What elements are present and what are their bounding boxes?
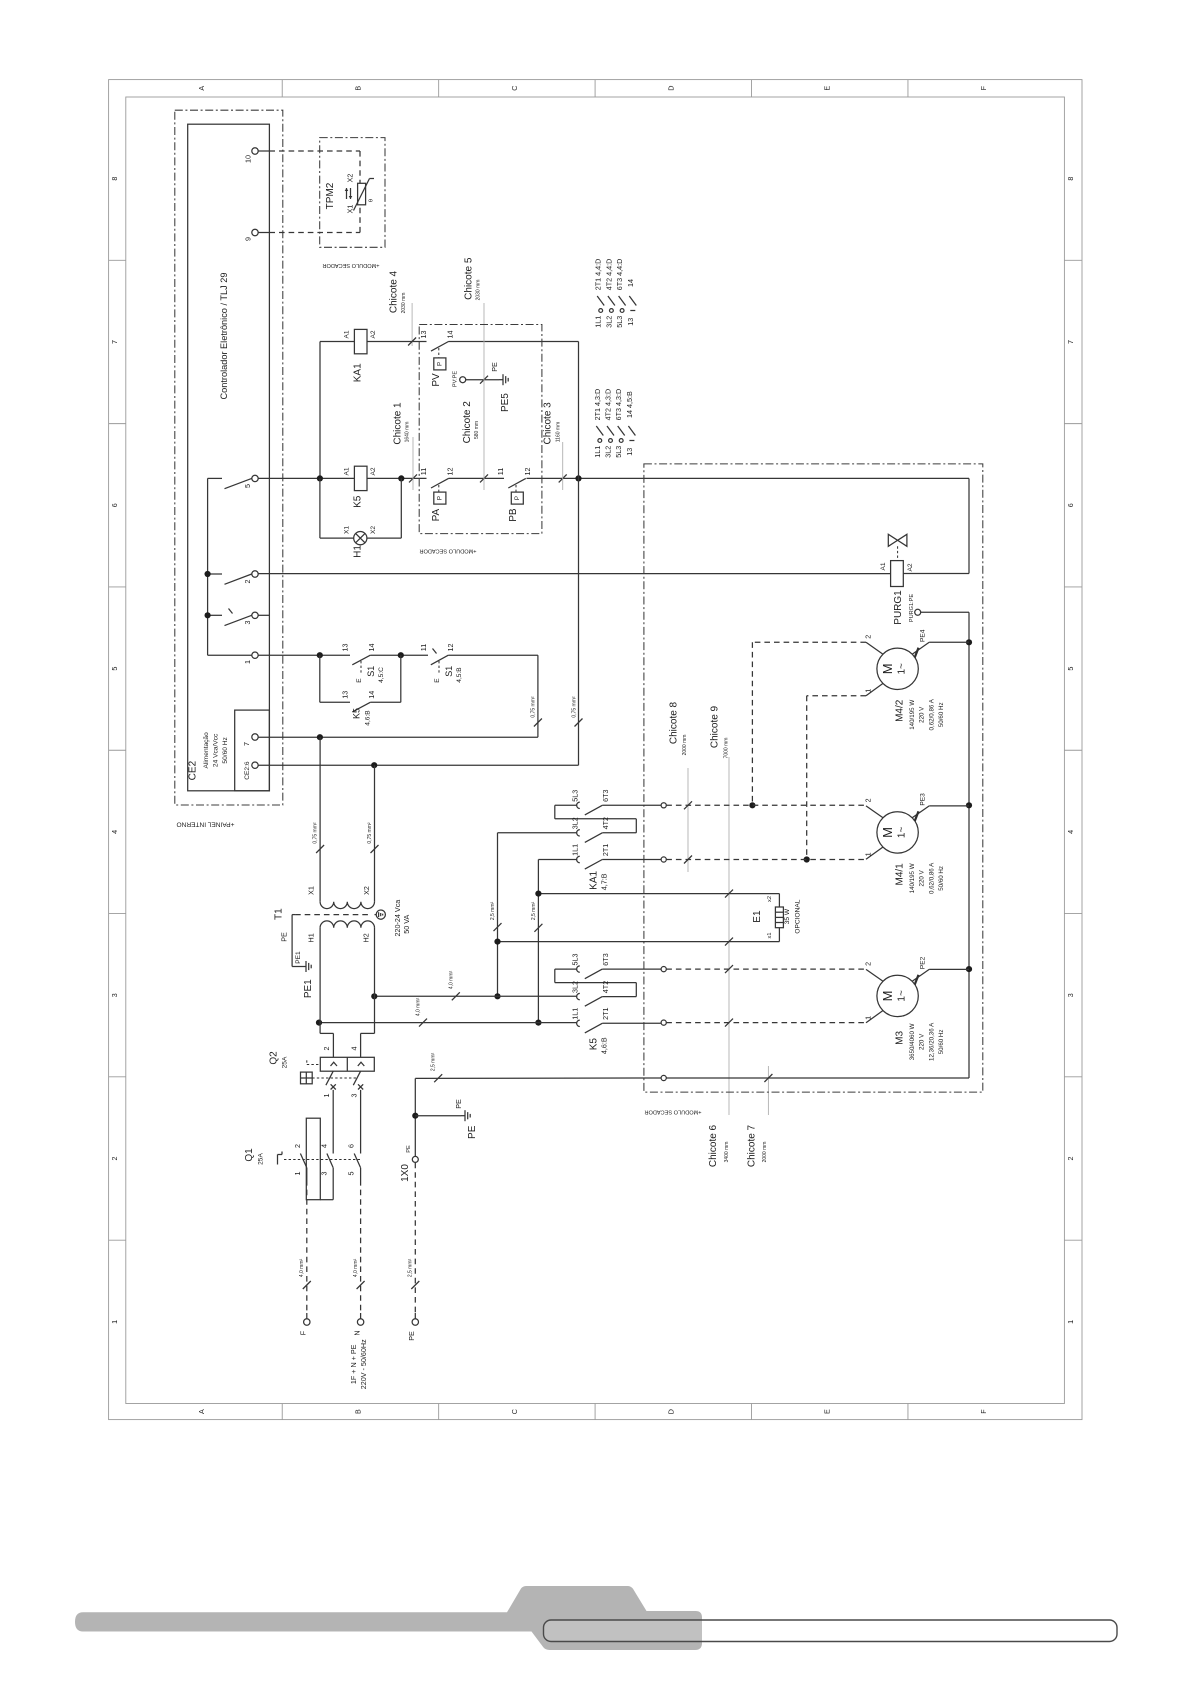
svg-text:K5: K5 [589, 1038, 600, 1051]
svg-text:12: 12 [523, 468, 532, 476]
svg-text:4: 4 [1066, 830, 1075, 834]
wire T1 X2 to CE2:6 rail 0,75mm2 [374, 765, 376, 902]
svg-text:K5: K5 [352, 708, 362, 719]
module boundary terminals [661, 803, 666, 808]
svg-text:4,5:C: 4,5:C [378, 667, 385, 683]
wire PURG1:PE to PE bus [921, 611, 969, 613]
svg-text:0,62/0,86 A: 0,62/0,86 A [928, 698, 935, 730]
svg-text:10: 10 [244, 155, 253, 163]
svg-text:E: E [356, 678, 363, 683]
controller terminal 9 [252, 229, 258, 235]
PA pressure switch P box [434, 492, 446, 504]
svg-text:3: 3 [243, 621, 252, 625]
svg-text:5L3: 5L3 [615, 316, 624, 328]
svg-text:2,5 mm²: 2,5 mm² [490, 902, 496, 921]
svg-text:1: 1 [243, 660, 252, 664]
svg-text:PA: PA [431, 508, 442, 521]
PV pressure switch P box [434, 358, 446, 370]
svg-text:A1: A1 [344, 467, 351, 475]
svg-text:9: 9 [244, 237, 253, 241]
svg-text:D: D [666, 1409, 675, 1414]
svg-text:H1: H1 [352, 545, 363, 558]
svg-text:3: 3 [110, 993, 119, 997]
svg-text:Chicote 4: Chicote 4 [389, 270, 400, 313]
svg-text:2T1: 2T1 [601, 1008, 610, 1020]
svg-text:2T1: 2T1 [601, 844, 610, 856]
svg-text:11: 11 [496, 468, 505, 475]
Chicote 9 / Chicote 6 harness marker [728, 757, 730, 1115]
svg-text:1L1: 1L1 [594, 316, 603, 328]
svg-text:12,36/20,36 A: 12,36/20,36 A [928, 1022, 935, 1061]
svg-text:220 V: 220 V [919, 869, 926, 886]
K5 power contact block 4,6:B [555, 968, 577, 970]
svg-text:0,75 mm²: 0,75 mm² [313, 822, 319, 843]
frame column/row dividers and ruler labels [281, 80, 283, 97]
svg-text:2000 mm: 2000 mm [762, 1142, 768, 1163]
svg-text:1L1: 1L1 [571, 1008, 580, 1020]
svg-text:CE2:6: CE2:6 [244, 761, 251, 780]
svg-text:13: 13 [626, 318, 635, 326]
vertical feed wire 2,5mm2 to KA1 3L2 / E1 [497, 833, 499, 997]
svg-text:4,7:B: 4,7:B [600, 873, 609, 890]
svg-text:A2: A2 [370, 467, 377, 475]
svg-text:K5: K5 [352, 495, 363, 508]
wire F phase dashed to mains [306, 1168, 308, 1180]
wire 1X0 up to PE distribution [414, 1078, 416, 1156]
motor M4/2 [877, 648, 918, 689]
svg-text:2030 mm: 2030 mm [476, 280, 482, 301]
T1 core line [295, 914, 372, 916]
svg-text:P: P [437, 496, 444, 500]
svg-text:4T2: 4T2 [601, 981, 610, 993]
svg-text:14: 14 [367, 644, 376, 652]
svg-text:Alimentação: Alimentação [203, 732, 210, 769]
svg-text:KA1: KA1 [589, 871, 600, 890]
svg-text:8: 8 [110, 177, 119, 181]
svg-text:PE1: PE1 [303, 979, 314, 998]
svg-text:2: 2 [110, 1157, 119, 1161]
svg-text:3L2: 3L2 [604, 446, 613, 458]
K5 relay coil [354, 466, 367, 490]
svg-text:6T3: 6T3 [601, 953, 610, 965]
svg-text:KA1: KA1 [352, 363, 363, 382]
svg-text:F: F [299, 1330, 308, 1335]
svg-text:4,6:B: 4,6:B [365, 710, 372, 726]
svg-text:PE: PE [280, 932, 289, 942]
svg-text:4,0 mm²: 4,0 mm² [449, 971, 455, 990]
svg-text:3: 3 [1066, 993, 1075, 997]
svg-text:5L3: 5L3 [571, 954, 580, 966]
svg-text:7: 7 [1066, 340, 1075, 344]
controller terminal 3 with output contact [208, 614, 222, 616]
svg-text:4,0 mm²: 4,0 mm² [416, 998, 422, 1017]
Chicote 8 harness marker [687, 768, 689, 872]
wire PV:PE to PE5 ground [466, 379, 499, 381]
svg-text:3650/4060 W: 3650/4060 W [909, 1023, 916, 1060]
svg-text:4T2 4,3:D: 4T2 4,3:D [604, 389, 613, 421]
svg-text:2T1 4,3:D: 2T1 4,3:D [593, 389, 602, 421]
svg-text:2: 2 [1066, 1157, 1075, 1161]
svg-text:M: M [880, 990, 895, 1001]
CE2 power supply sub-box [235, 710, 270, 791]
svg-text:B: B [353, 86, 362, 91]
svg-text:2: 2 [864, 962, 873, 966]
svg-text:0,62/0,86 A: 0,62/0,86 A [928, 862, 935, 894]
svg-text:1: 1 [110, 1320, 119, 1324]
wire PE dashed to mains [414, 1163, 416, 1313]
svg-text:A: A [197, 86, 206, 91]
svg-text:14: 14 [446, 331, 455, 339]
svg-text:1~: 1~ [897, 990, 908, 1002]
svg-text:35 W: 35 W [784, 908, 791, 924]
drawing frame inner border [126, 97, 1065, 1404]
dashed wire M4/2 terminal 1 branch [807, 695, 866, 697]
svg-text:X1: X1 [307, 886, 316, 895]
svg-text:12: 12 [446, 468, 455, 476]
svg-text:1: 1 [864, 852, 873, 856]
svg-text:PE: PE [406, 1145, 412, 1153]
svg-text:25A: 25A [282, 1056, 289, 1068]
Q1 pole 1-2 [300, 1154, 306, 1168]
PURG1 solenoid valve coil [891, 561, 904, 587]
H1 indicator lamp [354, 532, 367, 545]
svg-text:1640 mm: 1640 mm [405, 422, 411, 443]
svg-text:A1: A1 [344, 330, 351, 338]
svg-text:4T2: 4T2 [601, 817, 610, 829]
svg-text:Chicote 8: Chicote 8 [669, 701, 680, 744]
svg-text:2030 mm: 2030 mm [401, 293, 407, 314]
svg-text:PE: PE [490, 362, 499, 372]
dashed wire K5 6T3 to M3 2 [666, 968, 866, 970]
wires Q2 to Q1 [332, 1090, 334, 1154]
svg-text:M: M [880, 827, 895, 838]
svg-text:7000 mm: 7000 mm [724, 738, 730, 759]
svg-text:2: 2 [864, 635, 873, 639]
svg-text:3L2: 3L2 [571, 817, 580, 829]
svg-text:7: 7 [110, 340, 119, 344]
svg-text:1~: 1~ [897, 663, 908, 675]
svg-text:T1: T1 [274, 908, 285, 920]
wire terminal 7 rail [258, 736, 320, 738]
svg-text:50 VA: 50 VA [402, 914, 411, 933]
svg-text:A2: A2 [907, 563, 914, 571]
svg-text:C: C [510, 86, 519, 91]
svg-text:1: 1 [1066, 1320, 1075, 1324]
controller terminal 1 [252, 652, 258, 658]
svg-text:1: 1 [864, 1016, 873, 1020]
KA1 power contact block 4,7:B [555, 804, 577, 806]
wire PE to module 2,5mm2 [415, 1077, 661, 1079]
svg-text:2,5 mm²: 2,5 mm² [531, 902, 537, 921]
svg-text:220 V: 220 V [919, 1033, 926, 1050]
svg-text:X2: X2 [362, 886, 371, 895]
svg-text:50/60 Hz: 50/60 Hz [938, 866, 945, 891]
svg-text:13: 13 [340, 691, 349, 699]
svg-text:C: C [510, 1409, 519, 1414]
Q2 pole contacts [326, 1071, 333, 1085]
wire N dashed to mains [360, 1168, 362, 1180]
svg-text:13: 13 [340, 644, 349, 652]
svg-text:A: A [197, 1409, 206, 1414]
wire feed KA1 3L2 [498, 832, 578, 834]
Chicote 2 / Chicote 5 marker line [483, 303, 485, 490]
svg-text:0,75 mm²: 0,75 mm² [572, 696, 578, 717]
svg-text:Chicote 5: Chicote 5 [463, 257, 474, 300]
svg-text:6T3 4,4:D: 6T3 4,4:D [615, 259, 624, 291]
module dash-dot box around PV PA PB [419, 325, 542, 534]
svg-text:4T2 4,4:D: 4T2 4,4:D [604, 259, 613, 291]
svg-text:2: 2 [322, 1047, 331, 1051]
svg-text:PE4: PE4 [920, 629, 927, 642]
PE bus inside module [968, 642, 970, 1078]
svg-text:θ: θ [369, 199, 375, 202]
svg-text:11: 11 [419, 468, 428, 475]
svg-text:Chicote 9: Chicote 9 [709, 705, 720, 748]
svg-text:220-24 Vca: 220-24 Vca [393, 900, 402, 937]
Q1 mechanism dashed link [284, 1159, 362, 1161]
svg-text:4,6:B: 4,6:B [600, 1037, 609, 1054]
svg-text:E: E [434, 678, 441, 683]
controller terminal 7 [252, 734, 258, 740]
svg-text:25A: 25A [258, 1153, 265, 1165]
svg-text:1L1: 1L1 [571, 844, 580, 856]
controller terminal 2 with output contact [208, 573, 222, 575]
PURG1 valve symbol [888, 534, 907, 546]
mains terminal PE [412, 1319, 418, 1325]
svg-text:PURG1:PE: PURG1:PE [909, 594, 915, 623]
svg-text:5: 5 [1066, 667, 1075, 671]
footer gray toolbar shape [75, 1586, 1117, 1650]
svg-text:1~: 1~ [897, 827, 908, 839]
T1 transformer secondary winding X1-X2 [320, 902, 374, 909]
Chicote 1 harness marker [412, 437, 414, 490]
wire T1 H2 down to Q2 [374, 928, 376, 1034]
svg-text:13: 13 [419, 331, 428, 339]
svg-text:PE: PE [407, 1331, 416, 1341]
motor M3 [877, 975, 918, 1016]
svg-text:Chicote 7: Chicote 7 [747, 1124, 758, 1167]
svg-text:13: 13 [625, 448, 634, 456]
svg-text:X1: X1 [346, 205, 355, 214]
Chicote 4 harness marker [411, 303, 413, 346]
wire S1-12 output down to terminal 7 rail [537, 655, 539, 737]
svg-text:5L3: 5L3 [614, 446, 623, 458]
svg-text:M3: M3 [894, 1031, 905, 1045]
controller terminal CE2:6 [252, 762, 258, 768]
svg-text:+MODULO SECADOR: +MODULO SECADOR [419, 548, 476, 554]
svg-text:2,5 mm²: 2,5 mm² [431, 1053, 437, 1072]
svg-text:1160 mm: 1160 mm [556, 422, 562, 442]
svg-text:PE3: PE3 [920, 793, 927, 806]
svg-text:H2: H2 [362, 933, 371, 942]
svg-text:OPCIONAL: OPCIONAL [795, 899, 802, 933]
module PE wire to PE bus [666, 1077, 969, 1079]
K5 auxiliary contact 13-14 (4,6:B) [319, 655, 321, 702]
Q2 operating mechanism [301, 1072, 313, 1084]
svg-text:5L3: 5L3 [571, 790, 580, 802]
svg-text:E: E [823, 1409, 832, 1414]
svg-text:3: 3 [349, 1094, 358, 1098]
wire terminal 1 rail [258, 654, 350, 656]
wire terminal CE2:6 rail [258, 764, 374, 766]
svg-text:M4/2: M4/2 [894, 699, 905, 722]
vertical feed wire 2,5mm2 to KA1 1L1 [537, 860, 539, 1023]
dashed wire M4/2 terminal 2 branch [752, 641, 866, 643]
svg-text:2: 2 [293, 1144, 302, 1148]
TPM2 adjust arrows [346, 188, 348, 199]
svg-text:PB: PB [508, 508, 519, 522]
wire H2 220V feed to K5 3L2 [375, 995, 578, 997]
drawing frame outer border [109, 80, 1082, 1420]
controller terminal 5 with output contact [208, 477, 222, 479]
svg-text:5: 5 [347, 1172, 356, 1176]
svg-text:PE: PE [467, 1125, 478, 1139]
svg-text:X2: X2 [370, 526, 377, 534]
svg-text:1X0: 1X0 [400, 1164, 411, 1182]
svg-text:140/195 W: 140/195 W [909, 863, 916, 893]
svg-text:2: 2 [243, 580, 252, 584]
dashed wire K5 2T1 to M3 1 [666, 1022, 866, 1024]
svg-text:4: 4 [349, 1047, 358, 1051]
T1 PE screen wire to PE1 ground [292, 914, 295, 916]
wire terminal 10 to TPM2 X2 (dashed) [258, 150, 269, 152]
svg-text:Q2: Q2 [268, 1051, 279, 1065]
svg-text:6T3 4,3:D: 6T3 4,3:D [614, 389, 623, 421]
svg-text:PURG1: PURG1 [893, 590, 904, 625]
PE5 ground symbol [499, 379, 503, 381]
svg-text:140/195 W: 140/195 W [909, 700, 916, 730]
svg-text:3L2: 3L2 [604, 316, 613, 328]
svg-text:6T3: 6T3 [601, 790, 610, 802]
Chicote 7 harness marker [767, 1066, 769, 1115]
module +MODULO SECADOR dash-dot box [644, 464, 983, 1092]
wire terminal 5 rail right side down to PURG1 A2 [968, 478, 970, 573]
mains terminal N [357, 1319, 363, 1325]
svg-text:5: 5 [243, 484, 252, 488]
PE branch to ground symbol [415, 1115, 461, 1117]
PB pressure switch P box [511, 492, 523, 504]
svg-text:PE2: PE2 [920, 956, 927, 969]
KA1 relay coil [354, 329, 367, 353]
svg-text:Chicote 6: Chicote 6 [708, 1124, 719, 1167]
svg-text:6: 6 [347, 1144, 356, 1148]
svg-text:11: 11 [419, 644, 428, 651]
mains terminal F [304, 1319, 310, 1325]
svg-text:PE: PE [454, 1099, 463, 1109]
svg-text:X2: X2 [346, 174, 355, 183]
svg-text:220 V: 220 V [919, 706, 926, 723]
svg-text:+PAINEL INTERNO: +PAINEL INTERNO [176, 821, 234, 828]
svg-text:6: 6 [110, 503, 119, 507]
controller CE2 Controlador Eletronico / TLJ 29 box [188, 124, 270, 791]
svg-text:TPM2: TPM2 [325, 182, 336, 209]
svg-text:PV:PE: PV:PE [453, 371, 459, 388]
Q1 body [306, 1118, 320, 1200]
T1 screen ground symbol [376, 910, 385, 919]
svg-text:24 Vca/Vcc: 24 Vca/Vcc [213, 733, 220, 767]
wire terminal 2 rail [258, 573, 890, 575]
1X0 PE terminal [412, 1156, 418, 1162]
svg-text:1F + N + PE: 1F + N + PE [349, 1344, 358, 1384]
wire to E1 heater x1 [498, 941, 780, 943]
svg-text:E1: E1 [752, 910, 763, 923]
svg-text:4,0 mm²: 4,0 mm² [299, 1259, 305, 1278]
svg-text:P: P [437, 362, 444, 366]
wire H1 220V feed to K5 1L1 [319, 1022, 577, 1024]
footer white progress bar [544, 1620, 1118, 1642]
svg-text:1L1: 1L1 [593, 446, 602, 458]
svg-text:14: 14 [626, 279, 635, 287]
svg-text:+MODULO SECADOR: +MODULO SECADOR [322, 262, 379, 268]
svg-text:4,5:B: 4,5:B [456, 667, 463, 683]
TPM2 temperature sensor dash-dot box [320, 138, 385, 248]
wire feed KA1 1L1 [538, 859, 577, 861]
motor M4/1 [877, 812, 918, 853]
wire terminal 9 to TPM2 X1 (dashed) [258, 232, 269, 234]
controller terminal 10 [252, 148, 258, 154]
return wire from node down to CE2:6 rail (crossover at terminal-2 wire) [578, 342, 580, 479]
svg-text:3L2: 3L2 [571, 981, 580, 993]
Q1 handle [277, 1155, 279, 1165]
dashed wire KA1 2T1 to M4/1 1 [666, 859, 866, 861]
svg-text:F: F [979, 1409, 988, 1414]
svg-text:3400 mm: 3400 mm [724, 1142, 730, 1163]
svg-text:x2: x2 [767, 896, 773, 902]
svg-text:x1: x1 [767, 933, 773, 939]
svg-text:Chicote 1: Chicote 1 [393, 402, 404, 445]
svg-text:Chicote 2: Chicote 2 [462, 401, 473, 444]
svg-text:6: 6 [1066, 503, 1075, 507]
svg-text:0,75 mm²: 0,75 mm² [367, 822, 373, 843]
enclosure +PAINEL INTERNO dash-dot boundary [175, 110, 283, 805]
svg-text:50/60 Hz: 50/60 Hz [938, 702, 945, 727]
svg-text:P: P [514, 496, 521, 500]
svg-text:+MODULO SECADOR: +MODULO SECADOR [644, 1109, 701, 1115]
wires H1 lamp parallel with K5 coil [319, 478, 321, 538]
svg-text:220V - 50/60Hz: 220V - 50/60Hz [359, 1339, 368, 1389]
wire to E1 heater x2 [538, 893, 779, 895]
T1 transformer primary winding H1-H2 [320, 921, 374, 928]
svg-text:4: 4 [110, 830, 119, 834]
svg-text:50/60 Hz: 50/60 Hz [222, 737, 229, 763]
svg-text:S1: S1 [444, 666, 454, 677]
svg-text:A2: A2 [370, 330, 377, 338]
wire terminal 5 rail [258, 477, 426, 479]
wire PV/KA1 branch 13-14 rail [377, 341, 427, 343]
svg-text:E: E [823, 86, 832, 91]
svg-text:M: M [880, 663, 895, 674]
E1 heater element [775, 907, 783, 928]
svg-text:1: 1 [293, 1172, 302, 1176]
svg-text:H1: H1 [307, 933, 316, 942]
svg-text:X1: X1 [344, 526, 351, 534]
svg-text:PE5: PE5 [500, 393, 511, 412]
controller internal bus wire [207, 478, 209, 655]
wire T1 H1 down to Q2 [319, 928, 321, 1034]
svg-text:8: 8 [1066, 177, 1075, 181]
svg-text:1: 1 [322, 1094, 331, 1098]
svg-text:2T1 4,4:D: 2T1 4,4:D [594, 259, 603, 291]
svg-text:M4/1: M4/1 [894, 863, 905, 886]
svg-text:F: F [979, 85, 988, 90]
svg-text:PV: PV [431, 373, 442, 387]
svg-text:Chicote 3: Chicote 3 [543, 402, 554, 445]
svg-text:580 mm: 580 mm [474, 421, 480, 439]
svg-text:Q1: Q1 [244, 1148, 255, 1162]
svg-text:5: 5 [110, 667, 119, 671]
Chicote 3 harness marker [562, 442, 564, 490]
svg-text:PE1: PE1 [295, 951, 302, 964]
